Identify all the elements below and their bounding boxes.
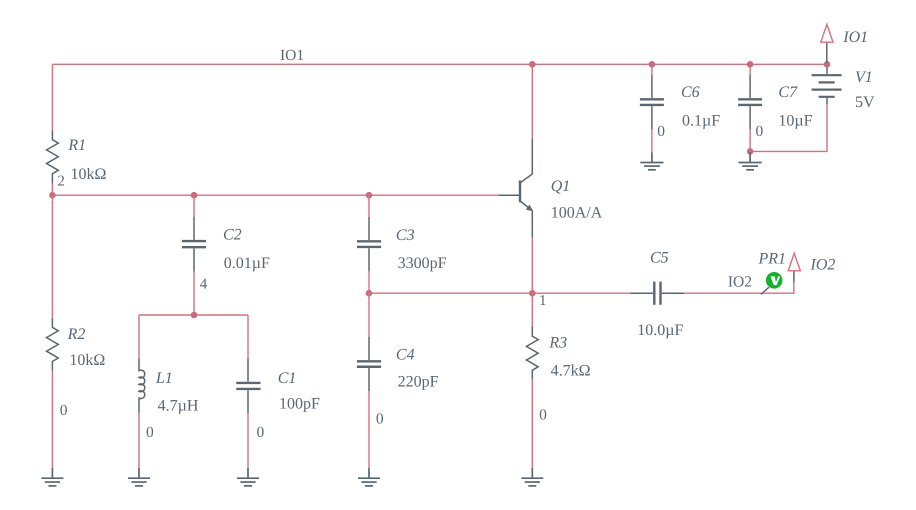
wire L1 top — [138, 315, 140, 358]
svg-text:100pF: 100pF — [279, 396, 320, 413]
ground C4 — [358, 468, 380, 486]
svg-text:10kΩ: 10kΩ — [69, 352, 105, 369]
svg-text:10.0µF: 10.0µF — [637, 322, 683, 339]
svg-text:0: 0 — [539, 407, 547, 424]
node emitter/R3 junction — [529, 290, 536, 297]
svg-text:2: 2 — [57, 174, 65, 190]
node rail2/R1/R2 junction — [49, 192, 56, 199]
wire C6 top — [651, 64, 653, 75]
wire C3 bottom — [368, 271, 370, 293]
svg-text:Q1: Q1 — [551, 178, 571, 195]
ground R3 — [521, 468, 543, 486]
svg-text:C6: C6 — [681, 84, 700, 101]
node C2 top junction — [191, 192, 198, 199]
svg-text:IO1: IO1 — [280, 47, 304, 64]
svg-text:0: 0 — [756, 123, 764, 140]
wire C3 top — [368, 195, 370, 217]
svg-text:10µF: 10µF — [778, 113, 812, 130]
svg-text:4.7kΩ: 4.7kΩ — [551, 363, 591, 380]
wire R3 top — [531, 293, 533, 326]
svg-text:4.7µH: 4.7µH — [158, 398, 199, 415]
capacitor C4 — [357, 337, 381, 391]
svg-text:100A/A: 100A/A — [551, 205, 603, 222]
wire rail2 (base row) — [52, 194, 498, 196]
svg-text:1: 1 — [539, 293, 547, 309]
svg-text:C7: C7 — [778, 84, 798, 101]
capacitor C5 — [630, 282, 684, 305]
svg-text:IO2: IO2 — [810, 257, 836, 274]
wire C7 bottom / net 0 — [749, 129, 751, 151]
wire R3 bottom / net 0 — [531, 379, 533, 468]
Q1 emitter arrow — [526, 205, 533, 212]
resistor R2 — [47, 318, 59, 371]
ground L1 — [128, 468, 150, 486]
svg-text:0: 0 — [257, 424, 265, 441]
svg-text:C4: C4 — [396, 347, 415, 364]
svg-text:C5: C5 — [650, 250, 669, 267]
capacitor C1 — [236, 358, 260, 413]
capacitor C6 — [640, 75, 664, 130]
svg-text:0: 0 — [146, 424, 154, 441]
capacitor C3 — [357, 217, 381, 272]
ground C1 — [237, 468, 259, 486]
resistor R3 — [526, 326, 538, 380]
svg-text:0: 0 — [657, 123, 665, 140]
wire R1 top lead — [51, 64, 53, 130]
svg-text:220pF: 220pF — [398, 374, 439, 391]
ground C7 — [739, 151, 762, 169]
svg-text:0: 0 — [376, 411, 384, 428]
wire Q1 emitter to rail4 — [531, 238, 533, 294]
inductor L1 — [139, 358, 145, 413]
svg-text:0: 0 — [60, 402, 68, 419]
wire C7 top — [749, 64, 751, 75]
node C3 top junction — [366, 192, 373, 199]
node C2/L1/C1 junction — [191, 312, 198, 319]
node collector/top rail junction — [529, 61, 536, 68]
svg-text:PR1: PR1 — [758, 250, 787, 267]
svg-text:0.1µF: 0.1µF — [682, 113, 720, 130]
svg-text:0.01µF: 0.01µF — [224, 255, 270, 272]
battery V1 — [812, 66, 842, 105]
wire L1 bottom / net 0 — [138, 413, 140, 468]
wire C2 top — [193, 195, 195, 216]
wire C2 bottom — [193, 272, 195, 315]
ground R2 — [41, 468, 63, 486]
capacitor C2 — [182, 217, 206, 272]
svg-text:R2: R2 — [67, 326, 86, 343]
node C3/C4 junction — [366, 290, 373, 297]
node C7 top junction — [747, 61, 754, 68]
svg-text:IO1: IO1 — [842, 29, 868, 46]
svg-text:L1: L1 — [155, 370, 173, 387]
wire C6 bottom / net 0 — [651, 129, 653, 152]
probe PR1 — [766, 272, 783, 289]
wire top rail IO1 net — [52, 63, 827, 65]
wire C1 top — [247, 315, 249, 358]
capacitor C7 — [738, 75, 762, 130]
svg-text:3300pF: 3300pF — [398, 255, 447, 272]
svg-text:C1: C1 — [278, 370, 297, 387]
node C7/V1 return junction — [747, 148, 754, 155]
wire R1 bottom — [51, 184, 53, 195]
svg-text:IO2: IO2 — [728, 273, 752, 290]
node V1 top junction — [824, 61, 831, 68]
wire R2 top — [51, 195, 53, 318]
svg-text:R3: R3 — [548, 335, 567, 352]
connector IO1 flag stem — [826, 42, 828, 63]
wire rail3 tank row — [139, 314, 248, 316]
wire C4 bottom / net 0 — [368, 391, 370, 468]
wire C5 to IO2 flag — [684, 283, 794, 294]
wire C4 top — [368, 293, 370, 337]
svg-text:V1: V1 — [855, 69, 873, 86]
svg-text:C2: C2 — [223, 226, 242, 243]
connector IO2 flag stem — [793, 271, 795, 283]
connector IO2 flag — [788, 253, 800, 270]
wire Q1 collector — [531, 64, 533, 138]
wire rail4 output row — [369, 292, 630, 294]
node C6 top junction — [649, 61, 656, 68]
ground C6 — [640, 152, 663, 170]
transistor Q1 — [499, 139, 533, 238]
svg-text:5V: 5V — [855, 94, 875, 111]
svg-text:4: 4 — [200, 276, 208, 292]
resistor R1 — [47, 131, 59, 184]
svg-text:R1: R1 — [67, 137, 86, 154]
probe PR1 pointer — [761, 287, 769, 294]
connector IO1 flag — [821, 24, 833, 42]
wire C1 bottom / net 0 — [247, 413, 249, 468]
svg-text:10kΩ: 10kΩ — [71, 166, 107, 183]
wire V1 return to C7 ground — [750, 105, 827, 152]
wire R2 bottom / net 0 — [51, 371, 53, 468]
svg-text:C3: C3 — [396, 227, 415, 244]
